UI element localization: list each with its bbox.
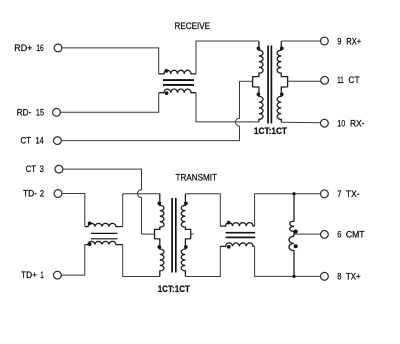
terminal pin 10 RX- — [321, 119, 329, 127]
transformer T2 primary top half winding — [155, 194, 165, 239]
transformer T1 primary bottom half winding — [253, 87, 264, 122]
terminal pin 3 CT — [55, 165, 63, 173]
svg-text:6: 6 — [337, 230, 341, 240]
terminal pin 1 TD+ — [54, 271, 62, 279]
transformer T1 secondary top polarity dot — [280, 46, 284, 50]
wire RD+ to choke CM1 — [62, 48, 159, 74]
autotransformer coil upper half — [290, 194, 294, 237]
terminal pin 16 RD+ — [54, 44, 62, 52]
pin label 9 RX+ — [337, 36, 361, 46]
wire choke CM2 bottom to transformer T2 primary bottom — [123, 245, 160, 277]
wire choke CM1 top to transformer T1 primary top — [196, 41, 259, 74]
transformer T2 primary center tap wire — [142, 233, 155, 235]
pin label CT 3 — [26, 164, 44, 174]
svg-text:15: 15 — [36, 107, 44, 117]
section header TRANSMIT — [176, 173, 218, 183]
wire autotransformer center tap to pin 6 — [294, 233, 321, 235]
choke CM3 bottom winding — [220, 243, 254, 247]
svg-text:11: 11 — [337, 75, 344, 85]
svg-text:9: 9 — [337, 36, 341, 46]
svg-text:8: 8 — [337, 272, 341, 282]
autotransformer lower polarity dot — [294, 244, 298, 248]
choke CM3 bottom winding polarity dot — [227, 245, 231, 249]
label 1CT:1CT for T2 — [158, 284, 190, 295]
autotransformer coil lower half — [289, 236, 294, 276]
choke CM3 top winding polarity dot — [227, 221, 231, 225]
choke CM1 bottom winding polarity dot — [165, 91, 169, 95]
choke CM2 core bars — [91, 233, 118, 238]
pin label RD- 15 — [17, 107, 44, 117]
transformer T1 secondary bottom polarity dot — [280, 92, 284, 96]
svg-text:TX+: TX+ — [346, 272, 361, 282]
wire T2 secondary top to choke CM3 — [185, 194, 220, 226]
svg-text:RD-: RD- — [17, 107, 32, 117]
transformer T1 primary bottom polarity dot — [257, 92, 261, 96]
wire T1 secondary top to pin 9 — [281, 40, 320, 42]
terminal pin 11 CT — [321, 76, 329, 84]
choke CM1 top winding — [159, 70, 196, 74]
wire T1 secondary center tap to pin 11 — [288, 80, 321, 82]
wire T2 secondary bottom to choke CM3 — [185, 246, 220, 276]
pin label 7 TX- — [337, 189, 359, 199]
svg-text:3: 3 — [40, 164, 44, 174]
terminal pin 7 TX- — [321, 190, 329, 198]
pin label CT 14 — [21, 136, 44, 146]
terminal pin 2 TD- — [54, 190, 62, 198]
choke CM2 top winding polarity dot — [88, 221, 92, 225]
transformer T2 secondary center tap stub — [191, 233, 194, 235]
transformer T2 primary bottom half winding — [155, 239, 165, 277]
transformer T2 secondary bottom half winding — [181, 239, 191, 277]
pin label 8 TX+ — [337, 272, 360, 282]
transformer T2 secondary bottom polarity dot — [184, 245, 188, 249]
wire T1 secondary bottom to pin 10 — [281, 121, 320, 124]
transformer T2 primary bottom polarity dot — [157, 245, 161, 249]
wire CT14 to T1 primary center tap with hop over bottom wire — [62, 81, 240, 140]
svg-text:10: 10 — [337, 118, 345, 128]
label 1CT:1CT for T1 — [254, 126, 287, 137]
choke CM2 bottom winding — [85, 241, 123, 244]
transformer T1 core bars — [268, 46, 271, 124]
svg-text:16: 16 — [36, 43, 43, 53]
svg-text:CT: CT — [21, 136, 32, 146]
svg-text:14: 14 — [36, 136, 44, 146]
choke CM3 top winding — [220, 223, 254, 227]
terminal pin 8 TX+ — [321, 272, 329, 280]
wire CT3 to T2 primary center tap with hop over TD- wire — [63, 169, 142, 234]
pin label TD- 2 — [23, 189, 44, 199]
transformer T2 core bars — [172, 198, 176, 273]
svg-text:1: 1 — [40, 270, 43, 280]
terminal pin 9 RX+ — [321, 37, 329, 45]
transformer T2 secondary top half winding — [181, 194, 190, 239]
svg-text:TX-: TX- — [346, 189, 360, 199]
transformer T1 primary top half winding — [253, 41, 264, 87]
choke CM2 bottom winding polarity dot — [88, 242, 92, 246]
choke CM1 top winding polarity dot — [165, 69, 169, 73]
pin label 10 RX- — [337, 118, 364, 128]
transformer T2 primary top polarity dot — [157, 202, 161, 206]
pin label TD+ 1 — [21, 270, 44, 280]
svg-text:CT: CT — [26, 164, 37, 174]
wire choke CM2 top to transformer T2 primary top — [123, 194, 160, 227]
wire choke CM3 bottom to pin 8 rail — [255, 246, 321, 276]
transformer T1 secondary bottom half winding — [277, 87, 288, 122]
pin label 6 CMT — [337, 230, 365, 240]
wire TD+ to choke CM2 — [62, 245, 85, 276]
choke CM1 core bars — [163, 80, 194, 85]
wire choke CM3 top to pin 7 rail — [255, 194, 321, 226]
svg-text:RX-: RX- — [350, 118, 365, 128]
choke CM2 top winding — [85, 223, 123, 226]
svg-text:TD-: TD- — [23, 189, 37, 199]
section header RECEIVE — [175, 21, 211, 31]
svg-text:2: 2 — [40, 189, 44, 199]
transformer T2 secondary top polarity dot — [184, 202, 188, 206]
svg-text:1CT:1CT: 1CT:1CT — [158, 284, 190, 295]
svg-text:CT: CT — [348, 75, 359, 85]
svg-text:TD+: TD+ — [21, 270, 37, 280]
svg-text:7: 7 — [337, 189, 341, 199]
junction dot coil top — [292, 192, 295, 195]
svg-text:RD+: RD+ — [14, 43, 32, 53]
choke CM3 core bars — [226, 233, 256, 238]
svg-text:TRANSMIT: TRANSMIT — [176, 173, 218, 183]
choke CM1 bottom winding — [159, 89, 196, 93]
transformer T1 primary top polarity dot — [257, 46, 261, 50]
pin label 11 CT — [337, 75, 360, 85]
wire TD- to choke CM2 — [62, 194, 85, 227]
svg-text:1CT:1CT: 1CT:1CT — [254, 126, 287, 137]
terminal pin 6 CMT — [321, 231, 329, 239]
terminal pin 14 CT — [54, 137, 62, 145]
svg-text:RX+: RX+ — [346, 36, 361, 46]
svg-text:RECEIVE: RECEIVE — [175, 21, 211, 31]
junction dot coil bottom — [292, 275, 295, 278]
pin label RD+ 16 — [14, 43, 43, 53]
terminal pin 15 RD- — [53, 108, 61, 116]
autotransformer upper polarity dot — [294, 230, 298, 234]
transformer T1 secondary top half winding — [277, 41, 288, 87]
wire choke CM1 bottom to transformer T1 primary bottom — [196, 93, 259, 122]
transformer T1 primary center tap wire — [240, 80, 253, 82]
wire RD- to choke CM1 — [61, 93, 159, 113]
svg-text:CMT: CMT — [346, 230, 365, 240]
